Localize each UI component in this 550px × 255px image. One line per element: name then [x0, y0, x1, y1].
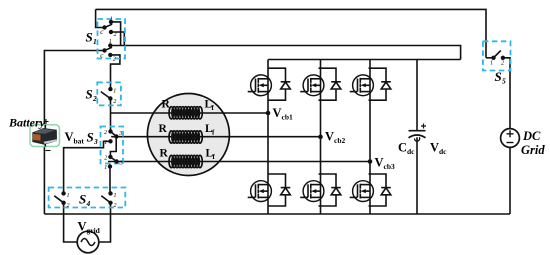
svg-text:V: V: [325, 130, 334, 144]
svg-text:2: 2: [67, 203, 70, 209]
wire S5 to DC grid: [503, 58, 510, 129]
svg-text:1: 1: [110, 16, 113, 22]
wire S4 left to Vgrid: [64, 203, 78, 242]
wire phase A from junction to Vcb1: [111, 112, 269, 114]
svg-text:V: V: [65, 130, 74, 144]
wire left battery branch: [44, 51, 102, 215]
wire S1 pole2 throw2 to S2: [110, 55, 120, 89]
node Vcb3: [368, 159, 373, 164]
svg-text:1: 1: [67, 193, 70, 199]
svg-text:2: 2: [113, 57, 116, 63]
svg-text:S: S: [495, 69, 502, 84]
wire phase leg 3: [369, 60, 371, 215]
switch S5: [483, 41, 511, 70]
wire S1 throw1 pole1 jog: [111, 22, 121, 46]
capacitor Cdc: [409, 131, 426, 141]
svg-text:2: 2: [113, 99, 116, 105]
svg-text:1: 1: [104, 140, 107, 146]
battery photo: [30, 125, 60, 147]
svg-text:3: 3: [119, 161, 123, 167]
svg-text:V: V: [273, 106, 282, 120]
mosfet Q3 top phase C: [350, 75, 374, 96]
svg-text:3: 3: [118, 131, 122, 137]
wire phase leg 2: [320, 60, 322, 215]
svg-text:cb3: cb3: [384, 162, 396, 171]
battery plus sign: [44, 119, 49, 124]
dc source DC Grid: [501, 129, 520, 148]
wire phase B from S3 to Vcb2: [111, 136, 320, 138]
mosfet Q4 bottom phase A: [248, 181, 272, 202]
svg-text:1: 1: [104, 165, 107, 171]
wire S1 throw2 pole1 jog: [111, 32, 124, 46]
wire S5 entry: [486, 57, 494, 59]
wire phase C from S3 to Vcb3: [108, 161, 370, 163]
wire S4 right to Vgrid: [99, 203, 111, 242]
svg-text:cb2: cb2: [334, 136, 346, 145]
switch S4: [49, 188, 126, 209]
mosfet Q5 bottom phase B: [300, 181, 324, 202]
svg-text:dc: dc: [407, 147, 415, 156]
wire S3 jog wire2 to contact C: [110, 137, 116, 157]
svg-text:S: S: [87, 130, 94, 145]
diode D3 top phase C: [369, 68, 391, 100]
motor stator circle: [147, 94, 229, 176]
wire top bridge bus: [268, 59, 461, 61]
wire capacitor branch top: [416, 60, 418, 131]
svg-text:V: V: [430, 141, 439, 155]
winding phase C coil: [169, 155, 202, 167]
svg-text:2: 2: [114, 203, 117, 209]
svg-text:bat: bat: [74, 137, 85, 146]
svg-text:V: V: [78, 220, 87, 234]
node Vcb2: [318, 135, 323, 140]
wire capacitor branch bottom: [416, 137, 418, 214]
wire bottom bus: [44, 213, 510, 215]
svg-text:S: S: [86, 30, 93, 45]
svg-text:C: C: [398, 141, 407, 155]
diode D2 top phase B: [319, 68, 341, 100]
svg-text:S: S: [86, 87, 93, 102]
svg-text:1: 1: [109, 39, 112, 45]
svg-text:1: 1: [93, 37, 97, 46]
wire DC grid to bottom bus: [509, 147, 511, 214]
svg-text:2: 2: [92, 94, 97, 103]
ac source Vgrid: [77, 231, 99, 253]
switch S1: [98, 16, 126, 62]
wire S1 output to bridge: [112, 46, 461, 60]
svg-text:5: 5: [502, 77, 506, 86]
switch S2: [97, 82, 121, 105]
capacitor plus sign: [421, 124, 426, 129]
wire top bus from S1 to right side: [96, 9, 486, 57]
mosfet Q6 bottom phase C: [350, 181, 374, 202]
battery minus sign: [46, 150, 51, 152]
svg-text:R: R: [160, 148, 169, 160]
diode D4 bottom phase A: [268, 174, 290, 206]
wire S2 to S3 column: [110, 99, 112, 132]
svg-text:3: 3: [93, 137, 98, 146]
winding phase B coil: [169, 131, 202, 143]
svg-text:1: 1: [114, 193, 117, 199]
svg-text:2: 2: [114, 32, 117, 38]
svg-text:Grid: Grid: [521, 143, 545, 157]
svg-text:Battery: Battery: [8, 116, 46, 130]
switch S3: [101, 127, 124, 172]
svg-text:DC: DC: [522, 129, 541, 143]
svg-text:R: R: [159, 123, 168, 135]
svg-text:c: c: [100, 52, 104, 60]
svg-text:cb1: cb1: [282, 113, 294, 122]
svg-text:2: 2: [501, 61, 504, 67]
diode D5 bottom phase B: [319, 174, 341, 206]
wire S3 contact B to S4 left: [64, 141, 111, 193]
svg-text:V: V: [375, 156, 384, 170]
mosfet Q1 top phase A: [248, 75, 272, 96]
wire S1 common pole1 lead from top bus: [96, 9, 103, 27]
node Vcb1: [266, 111, 271, 116]
svg-text:2: 2: [104, 155, 107, 161]
svg-text:dc: dc: [439, 147, 447, 156]
wire S3 contact E to S4 right: [109, 167, 111, 194]
winding phase A coil: [169, 107, 202, 119]
svg-text:grid: grid: [87, 226, 101, 235]
mosfet Q2 top phase B: [300, 75, 324, 96]
svg-text:1: 1: [113, 88, 116, 94]
svg-text:4: 4: [86, 199, 91, 208]
svg-text:2: 2: [104, 130, 107, 136]
diode D1 top phase A: [268, 68, 290, 100]
svg-text:1: 1: [490, 61, 493, 67]
wire phase leg 1: [267, 60, 269, 215]
svg-text:R: R: [162, 99, 171, 111]
diode D6 bottom phase C: [369, 174, 391, 206]
svg-text:S: S: [79, 192, 86, 207]
